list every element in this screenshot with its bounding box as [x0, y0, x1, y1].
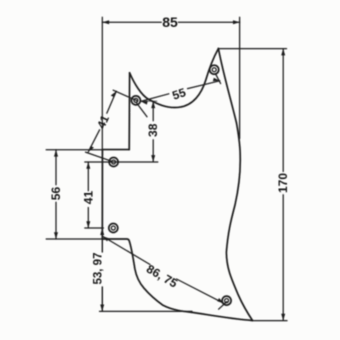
outline saddle top curve from right peak to left peak	[130, 49, 219, 108]
dim 85 line	[102, 21, 240, 23]
dim 86,75 arrow left	[102, 236, 109, 241]
dim 56 arrow top	[54, 150, 58, 157]
svg-text:56: 56	[49, 187, 63, 201]
dim 53,97 extension bottom	[100, 310, 193, 312]
svg-text:86, 75: 86, 75	[144, 262, 180, 291]
dim 56 extension top	[46, 149, 102, 151]
outline lower step and bottom sweep curve	[102, 239, 252, 321]
svg-text:170: 170	[276, 173, 290, 193]
dim 38 line	[152, 101, 154, 162]
hole C inner	[212, 68, 216, 72]
svg-text:38: 38	[146, 123, 160, 137]
leader tick from hole F to bottom edge	[219, 302, 227, 310]
dim 38 extension from hole A	[141, 100, 157, 102]
dim 56 line	[55, 150, 57, 239]
dim 170 extension bottom	[252, 320, 288, 322]
dim 55 arrow right	[213, 78, 220, 82]
dim 41 diagonal extension from hole A	[113, 90, 137, 101]
dim 56 extension bottom	[46, 238, 102, 240]
dim 53,97 line (with text gap)	[101, 228, 103, 311]
svg-text:55: 55	[170, 85, 187, 103]
hole F outer	[222, 296, 231, 305]
dim 55 extension tick at hole C	[215, 74, 220, 84]
dim 41 diagonal arrow upper	[111, 91, 117, 97]
dim 55 arrow left	[141, 101, 148, 105]
hole F inner	[225, 299, 229, 303]
svg-text:41: 41	[81, 191, 95, 205]
dim 85 arrow right	[233, 20, 240, 24]
dim 56 arrow bottom	[54, 232, 58, 239]
hole B outer	[109, 158, 118, 167]
dim 170 extension top	[220, 48, 287, 50]
outline left vertical edge from upper peak	[128, 73, 130, 150]
hole D outer	[109, 224, 118, 233]
hole A inner	[134, 98, 138, 102]
outline left edge	[101, 150, 103, 239]
hole A outer	[131, 96, 140, 105]
hole C outer	[210, 65, 219, 74]
dim 170 arrow bottom	[281, 314, 285, 321]
dim 53,97 arrow top	[100, 228, 104, 235]
dim 85 arrow left	[102, 20, 109, 24]
dim 38 arrow bottom	[151, 155, 155, 162]
dim 41 left arrow bottom	[86, 221, 90, 228]
outline right edge	[218, 49, 252, 321]
dim 170 arrow top	[281, 49, 285, 56]
dim 38 arrow top	[151, 101, 155, 108]
dim 41 left extension bottom through hole D	[85, 227, 104, 229]
outline step at y=149	[102, 149, 129, 151]
dim 85 extension line left	[101, 17, 103, 149]
hole B inner	[112, 160, 116, 164]
svg-text:53, 97: 53, 97	[93, 253, 105, 285]
dim 53,97 arrow bottom	[100, 305, 104, 312]
svg-text:85: 85	[162, 14, 178, 30]
dim 41 left extension top through hole B	[85, 161, 158, 163]
dim 86,75 line	[102, 236, 224, 303]
dim 41 diagonal line (hole A to hole B)	[88, 91, 116, 152]
dim 41 left arrow top	[86, 162, 90, 169]
dim 41 diagonal extension from hole B	[86, 152, 112, 161]
hole D inner	[111, 226, 115, 230]
dim 55 line (hole A to hole C)	[141, 81, 220, 102]
dim 41 diagonal arrow lower	[88, 146, 94, 152]
dim 170 line	[282, 49, 284, 321]
dim 55 extension tick at hole A	[137, 103, 147, 117]
svg-text:41: 41	[96, 113, 112, 130]
dim 41 left line	[87, 162, 89, 228]
dim 85 extension line right	[239, 17, 241, 138]
dim 86,75 arrow right at hole F	[217, 298, 224, 303]
